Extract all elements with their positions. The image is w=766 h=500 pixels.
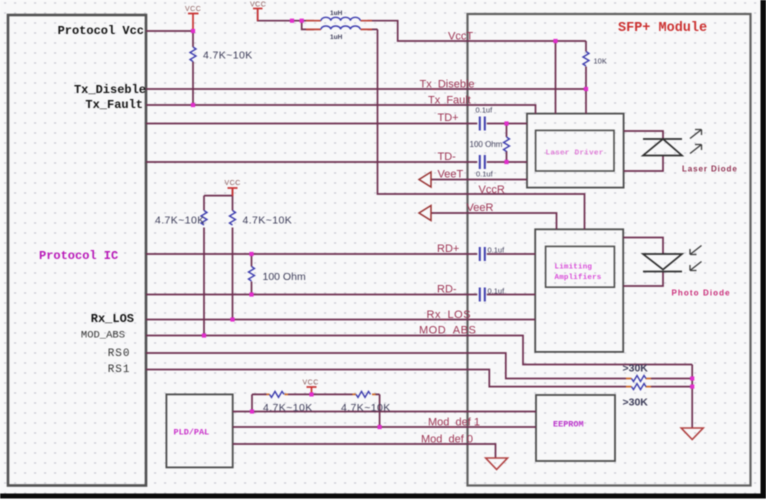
svg-text:MOD_ABS: MOD_ABS bbox=[81, 330, 125, 342]
svg-text:Tx_Fault: Tx_Fault bbox=[428, 95, 471, 107]
svg-text:VCC: VCC bbox=[225, 180, 241, 187]
svg-text:VCC: VCC bbox=[185, 6, 201, 13]
svg-text:SFP+ Module: SFP+ Module bbox=[618, 21, 707, 36]
svg-text:4.7K~10K: 4.7K~10K bbox=[341, 402, 391, 414]
svg-text:Rx_LOS: Rx_LOS bbox=[427, 309, 472, 321]
svg-text:Amplifiers: Amplifiers bbox=[555, 274, 602, 282]
svg-text:1uH: 1uH bbox=[330, 10, 343, 17]
svg-text:VeeR: VeeR bbox=[467, 202, 494, 214]
svg-text:VccR: VccR bbox=[479, 184, 505, 196]
svg-text:Laser Driver: Laser Driver bbox=[546, 150, 604, 158]
svg-text:Laser Diode: Laser Diode bbox=[682, 165, 738, 174]
svg-text:Protocol IC: Protocol IC bbox=[39, 249, 118, 263]
svg-text:Tx_Fault: Tx_Fault bbox=[85, 98, 143, 112]
svg-text:Protocol Vcc: Protocol Vcc bbox=[58, 24, 144, 38]
svg-text:MOD_ABS: MOD_ABS bbox=[419, 325, 476, 337]
svg-text:4.7K~10K: 4.7K~10K bbox=[263, 402, 313, 414]
svg-text:RD-: RD- bbox=[437, 284, 457, 296]
svg-text:0.1uf: 0.1uf bbox=[488, 246, 506, 255]
svg-text:Rx_LOS: Rx_LOS bbox=[91, 312, 134, 326]
svg-text:0.1uf: 0.1uf bbox=[488, 287, 506, 296]
svg-text:>30K: >30K bbox=[623, 397, 649, 409]
svg-text:EEPROM: EEPROM bbox=[553, 420, 584, 430]
svg-text:RS1: RS1 bbox=[108, 364, 131, 376]
svg-text:TD-: TD- bbox=[438, 151, 457, 163]
svg-text:TD+: TD+ bbox=[438, 112, 459, 124]
svg-text:VCC: VCC bbox=[250, 2, 266, 9]
svg-text:0.1uf: 0.1uf bbox=[476, 170, 494, 179]
svg-text:Photo Diode: Photo Diode bbox=[672, 289, 731, 298]
svg-text:4.7K~10K: 4.7K~10K bbox=[155, 215, 205, 227]
svg-text:VCC: VCC bbox=[303, 379, 319, 386]
svg-text:4.7K~10K: 4.7K~10K bbox=[243, 215, 293, 227]
svg-text:RS0: RS0 bbox=[108, 348, 131, 360]
svg-text:VccT: VccT bbox=[448, 31, 473, 43]
svg-text:0.1uf: 0.1uf bbox=[476, 106, 494, 115]
svg-text:10K: 10K bbox=[594, 57, 607, 66]
svg-text:>30K: >30K bbox=[623, 363, 649, 375]
svg-text:Limiting: Limiting bbox=[555, 264, 593, 272]
svg-text:100 Ohm: 100 Ohm bbox=[470, 140, 503, 149]
svg-text:Mod_def 0: Mod_def 0 bbox=[421, 434, 473, 446]
svg-text:PLD/PAL: PLD/PAL bbox=[174, 428, 210, 438]
svg-text:100 Ohm: 100 Ohm bbox=[263, 271, 306, 283]
svg-text:Tx_Diseble: Tx_Diseble bbox=[420, 79, 475, 91]
svg-text:4.7K~10K: 4.7K~10K bbox=[203, 50, 253, 62]
svg-text:RD+: RD+ bbox=[437, 243, 459, 255]
svg-text:Tx_Diseble: Tx_Diseble bbox=[74, 83, 146, 97]
svg-text:Mod_def 1: Mod_def 1 bbox=[428, 417, 480, 429]
svg-text:VeeT: VeeT bbox=[438, 169, 464, 181]
svg-text:1uH: 1uH bbox=[330, 34, 343, 41]
